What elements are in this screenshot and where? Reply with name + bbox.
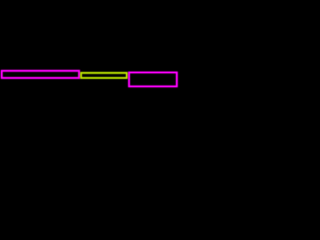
left magenta box glow [2, 71, 79, 78]
middle yellow box glow [81, 73, 127, 78]
left magenta box core [2, 71, 79, 78]
middle yellow box core [81, 73, 127, 78]
right magenta box core [129, 72, 177, 86]
right magenta box glow [129, 72, 177, 86]
